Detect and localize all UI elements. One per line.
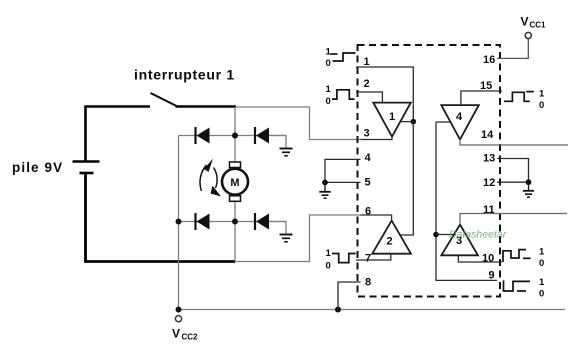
- svg-text:10: 10: [482, 253, 494, 265]
- gate U1C buffer 3: [441, 225, 478, 256]
- diode D4 bottom-right: [255, 213, 269, 230]
- svg-text:CC2: CC2: [182, 333, 199, 342]
- svg-text:11: 11: [483, 204, 495, 216]
- svg-text:1: 1: [326, 84, 332, 95]
- rotation arrow left of motor: [200, 165, 217, 191]
- svg-text:3: 3: [364, 128, 370, 140]
- diode D1 top-left: [196, 127, 210, 144]
- wire pin 5 to internal ground: [325, 181, 361, 183]
- svg-text:pile 9V: pile 9V: [12, 160, 63, 175]
- svg-text:1: 1: [364, 56, 370, 68]
- motor M: [222, 162, 248, 201]
- wire enable stub gate 3: [436, 234, 453, 236]
- junction node internal ground: [322, 180, 328, 186]
- terminal VCC1: [525, 32, 531, 38]
- svg-text:2: 2: [364, 78, 370, 90]
- bridge bottom rail wire: [179, 221, 287, 223]
- svg-text:interrupteur 1: interrupteur 1: [134, 67, 235, 83]
- wire pin 4 to internal ground: [325, 159, 361, 182]
- wire bottom node to pin 6 (grey): [235, 215, 361, 262]
- wire pin 12 to right ground: [497, 181, 529, 183]
- svg-text:7: 7: [365, 253, 371, 265]
- svg-text:V: V: [172, 327, 180, 341]
- gate U1B buffer 2: [372, 221, 411, 254]
- wire pin 1 enable line: [356, 67, 413, 235]
- bottom rail VCC2 wire: [179, 309, 566, 311]
- junction node bottom center: [232, 219, 238, 225]
- wire pin 9 enable line gates 3 4: [436, 122, 497, 280]
- junction node enable gate 3: [433, 232, 439, 238]
- wire motor top: [234, 107, 236, 163]
- wire rail to pin 8: [338, 282, 361, 310]
- svg-text:CC1: CC1: [530, 21, 547, 30]
- wire pin 2 to gate 1 input: [356, 92, 382, 103]
- switch interrupteur 1 blade: [151, 93, 177, 106]
- svg-text:0: 0: [539, 258, 544, 269]
- svg-text:1: 1: [539, 89, 545, 100]
- svg-text:0: 0: [326, 96, 331, 107]
- svg-text:0: 0: [539, 289, 544, 300]
- ground internal left: [319, 182, 330, 198]
- gate U1A buffer 1: [373, 103, 411, 137]
- terminal VCC2: [175, 316, 181, 322]
- svg-text:8: 8: [365, 277, 371, 289]
- wire motor bottom: [234, 201, 236, 262]
- battery B1 pile 9V: [73, 162, 100, 174]
- svg-text:14: 14: [481, 129, 494, 141]
- svg-text:0: 0: [326, 261, 331, 272]
- bridge left vertical wire: [178, 136, 180, 310]
- wire bridge top node to pin 3 (grey): [235, 107, 361, 140]
- diode D3 bottom-left: [196, 213, 210, 230]
- svg-text:0: 0: [539, 100, 544, 111]
- junction node bottom left: [176, 219, 182, 225]
- wire pin 16 to VCC1: [497, 39, 528, 59]
- svg-text:4: 4: [365, 152, 372, 164]
- svg-text:M: M: [230, 177, 239, 189]
- junction node top center: [232, 133, 238, 139]
- waveform pin 2 pulse: [326, 84, 355, 107]
- wire pin 10 to gate 3 input: [458, 255, 502, 262]
- svg-text:0: 0: [326, 58, 331, 69]
- svg-text:13: 13: [483, 153, 495, 165]
- waveform pin 15 pulse: [504, 89, 545, 112]
- waveform pin 7 notch: [326, 248, 356, 272]
- wire battery plus up: [86, 107, 151, 161]
- svg-text:Datasheetar: Datasheetar: [449, 229, 507, 241]
- junction node VCC2: [176, 307, 182, 313]
- wire top-right to ground: [269, 136, 286, 148]
- wire battery minus down and right: [86, 174, 236, 262]
- waveform pin 1 step: [326, 47, 356, 70]
- waveform pin 10 notch: [503, 247, 545, 270]
- svg-text:1: 1: [539, 247, 545, 258]
- wire gate 3 output to pin 11 and out: [460, 214, 567, 225]
- waveform pin 9 step: [504, 277, 546, 300]
- svg-text:1: 1: [389, 111, 395, 123]
- svg-text:9: 9: [489, 270, 495, 282]
- svg-text:V: V: [521, 15, 529, 29]
- junction node enable gate 1: [411, 119, 417, 125]
- svg-text:1: 1: [326, 248, 332, 259]
- svg-text:1: 1: [326, 47, 332, 58]
- junction node pin8 rail: [335, 307, 341, 313]
- svg-text:6: 6: [365, 206, 371, 218]
- diode D2 top-right: [255, 127, 269, 144]
- wire enable stub gate 1: [400, 121, 413, 123]
- wire enable stub gate 4: [436, 121, 451, 123]
- wire pin 3 to gate 1 output: [361, 136, 393, 140]
- svg-text:2: 2: [387, 236, 393, 248]
- wire pin 15 to gate 4 input: [461, 91, 502, 105]
- wire switch to bridge top node: [176, 105, 237, 108]
- svg-text:1: 1: [539, 277, 545, 288]
- IC U1 dashed box: [358, 45, 501, 297]
- wire pin 13 to right ground: [497, 159, 529, 183]
- svg-text:5: 5: [365, 177, 371, 189]
- ground right: [523, 182, 534, 197]
- wire pin 6 to gate 2 output: [361, 215, 392, 221]
- ground top-right: [280, 149, 293, 156]
- junction node right ground: [526, 179, 532, 185]
- gate U1D buffer 4: [441, 105, 479, 139]
- wire gate 4 output to pin 14 and out: [460, 139, 568, 145]
- svg-text:12: 12: [483, 177, 495, 189]
- wire bottom-right to ground: [269, 222, 286, 234]
- svg-text:4: 4: [456, 111, 463, 123]
- svg-text:16: 16: [483, 54, 495, 66]
- bridge top rail wire: [179, 135, 287, 137]
- wire pin 7 to gate 2 input: [356, 254, 391, 260]
- svg-text:15: 15: [480, 80, 492, 92]
- ground bottom-right: [280, 235, 293, 242]
